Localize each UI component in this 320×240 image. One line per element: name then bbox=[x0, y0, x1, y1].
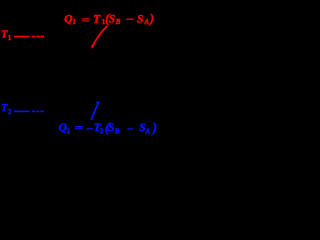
svg-text:B: B bbox=[114, 127, 120, 135]
svg-text:2: 2 bbox=[67, 127, 71, 135]
svg-text:1: 1 bbox=[72, 18, 76, 26]
svg-text:A: A bbox=[143, 18, 149, 26]
svg-text:1: 1 bbox=[8, 33, 12, 42]
svg-text:): ) bbox=[149, 12, 154, 26]
svg-text:): ) bbox=[152, 120, 157, 135]
svg-text:B: B bbox=[115, 18, 121, 26]
svg-text:S: S bbox=[108, 122, 114, 134]
svg-text:S: S bbox=[109, 14, 115, 26]
svg-text:2: 2 bbox=[8, 107, 12, 116]
svg-text:A: A bbox=[145, 127, 151, 135]
svg-text:T: T bbox=[93, 14, 101, 26]
svg-text:T: T bbox=[1, 103, 8, 114]
svg-text:Q: Q bbox=[64, 14, 72, 26]
svg-text:2: 2 bbox=[100, 127, 104, 135]
svg-text:S: S bbox=[137, 14, 143, 26]
